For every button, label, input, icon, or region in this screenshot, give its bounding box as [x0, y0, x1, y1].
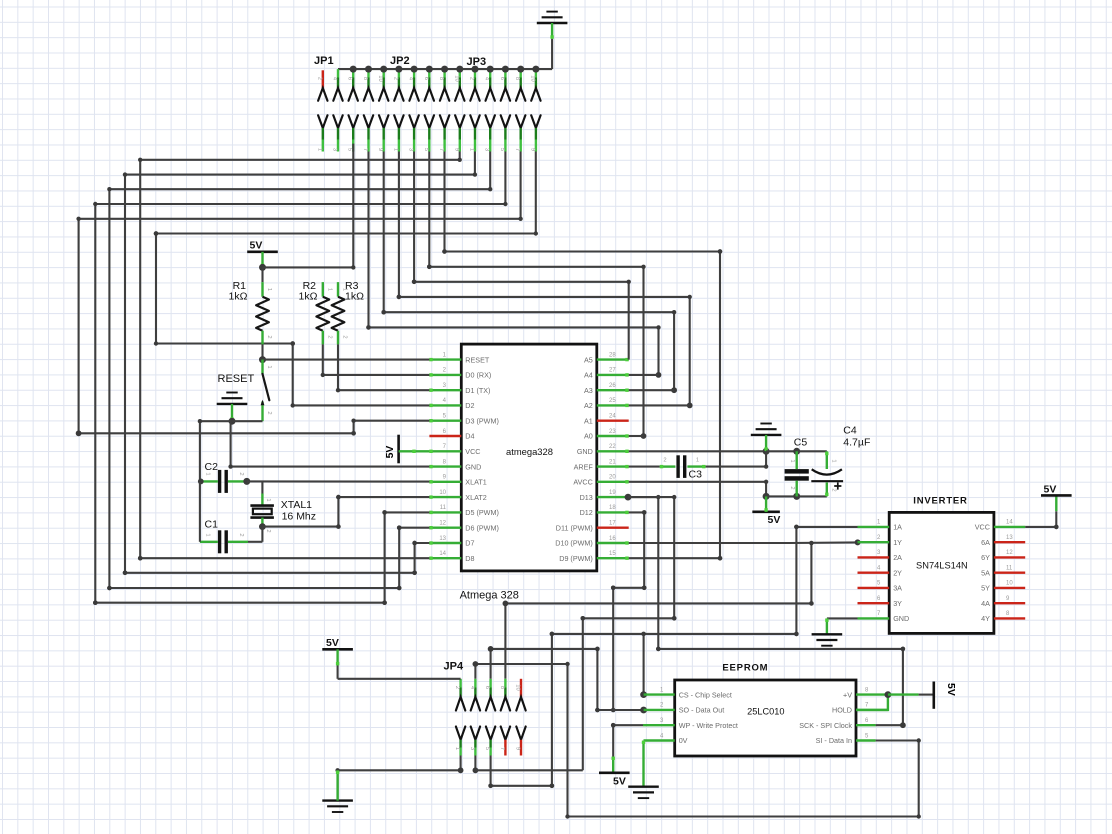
wire D10 to 1Y (inverter) [629, 542, 790, 544]
bend dot [442, 249, 447, 254]
svg-text:11: 11 [1006, 566, 1013, 572]
EEPROM pin 2 stub [644, 709, 675, 711]
svg-text:VCC: VCC [465, 447, 480, 456]
svg-text:25: 25 [609, 398, 616, 404]
bend dot [412, 541, 417, 546]
pin 6 D4 stub [429, 435, 461, 437]
wire ground run right segment [475, 769, 582, 771]
svg-text:A2: A2 [584, 401, 593, 410]
wire ground junction to C2 left [200, 421, 232, 481]
svg-text:1: 1 [316, 148, 322, 151]
wire XTAL junction to C1 pin2 [261, 527, 263, 542]
wire JP4-4 from SI run [475, 664, 918, 817]
bend dot [412, 280, 417, 285]
header pin JP1-5 (bottom row) [349, 115, 358, 128]
svg-text:3: 3 [469, 747, 475, 750]
svg-text:26: 26 [609, 383, 616, 389]
svg-text:15: 15 [609, 551, 616, 557]
wire GND row to C5 top [766, 450, 797, 452]
junction GND net [763, 448, 770, 455]
junction bus / pin 11 [487, 66, 494, 73]
pin 11 D5 (PWM) stub [429, 511, 461, 513]
junction A0 [641, 433, 647, 439]
wire JP1-7 to A4 [369, 152, 659, 375]
power 5V (R1) [247, 251, 278, 254]
svg-text:Atmega 328: Atmega 328 [460, 590, 519, 602]
wire C3 pin1 [687, 465, 705, 467]
svg-text:RESET: RESET [218, 373, 255, 385]
bend dot [488, 784, 493, 789]
capacitor C1 [218, 530, 221, 553]
svg-text:8: 8 [362, 77, 368, 80]
junction bus / pin 9 [456, 66, 463, 73]
junction bus / pin 8 [441, 66, 448, 73]
svg-text:6: 6 [484, 686, 490, 689]
svg-text:12: 12 [1006, 550, 1013, 556]
svg-text:2Y: 2Y [893, 568, 902, 577]
svg-text:1: 1 [469, 148, 475, 151]
header pin JP3-10 (top row) [535, 69, 537, 77]
header pin JP3-1 (bottom row) [470, 115, 479, 128]
header pin JP2-5 (bottom row) [425, 115, 434, 128]
svg-text:17: 17 [609, 521, 616, 527]
svg-text:A4: A4 [584, 371, 593, 380]
svg-text:D11 (PWM): D11 (PWM) [556, 523, 593, 532]
bend dot [107, 586, 112, 591]
wire JP2-7 to D9 [445, 152, 721, 559]
inverter pin 7 stub [858, 617, 890, 619]
svg-text:C1: C1 [205, 519, 219, 531]
wire JP3-9 to D2 [156, 152, 536, 406]
bend dot [809, 601, 814, 606]
wire 5V row C5 [766, 495, 797, 497]
svg-text:A3: A3 [584, 386, 593, 395]
bend dot [397, 525, 402, 530]
svg-text:27: 27 [609, 368, 616, 374]
EEPROM pin 1 stub [644, 693, 675, 695]
wire C4 pin2 [826, 482, 828, 496]
bend dot [641, 632, 646, 637]
svg-text:VCC: VCC [975, 523, 990, 532]
header pin JP4-5 (bottom row) [486, 727, 495, 740]
switch S1 top pin [261, 360, 263, 374]
op-amp.. IC U1 atmega328 body [461, 344, 597, 571]
svg-text:1: 1 [696, 458, 699, 464]
svg-text:2: 2 [326, 335, 332, 338]
ground (RESET) [217, 403, 248, 405]
wire C5 pin1 [796, 451, 798, 469]
wire AREF to C3 [629, 466, 660, 468]
svg-text:5V: 5V [326, 637, 339, 649]
junction 5V/R1 [259, 264, 266, 271]
pin stub RESET ground [231, 404, 233, 421]
svg-text:5: 5 [499, 148, 505, 151]
svg-text:13: 13 [1006, 535, 1013, 541]
svg-text:CS - Chip Select: CS - Chip Select [679, 690, 732, 699]
svg-text:1: 1 [789, 459, 795, 462]
svg-text:1kΩ: 1kΩ [229, 291, 248, 303]
header pin JP1-3 (bottom row) [333, 115, 342, 128]
svg-text:6A: 6A [981, 538, 990, 547]
header pin JP1-1 (bottom row) [318, 115, 327, 128]
pin 12 D6 (PWM) stub [429, 527, 461, 529]
IC U3 EEPROM body [675, 680, 856, 756]
bend dot [718, 249, 723, 254]
bend dot [366, 325, 371, 330]
svg-text:8: 8 [438, 77, 444, 80]
svg-text:3A: 3A [893, 584, 902, 593]
svg-text:5: 5 [423, 148, 429, 151]
svg-text:D9 (PWM): D9 (PWM) [559, 554, 593, 563]
bend dot [382, 510, 387, 515]
header pin JP1-4 (top row) [337, 69, 339, 77]
power 5V (EEPROM, vertical) [932, 682, 935, 709]
svg-text:3: 3 [332, 148, 338, 151]
svg-text:2: 2 [469, 77, 475, 80]
svg-text:18: 18 [609, 505, 616, 511]
bend dot [550, 632, 555, 637]
bend dot [351, 431, 356, 436]
bend dot [397, 295, 402, 300]
svg-text:1: 1 [266, 365, 272, 368]
svg-text:9: 9 [529, 148, 535, 151]
header pin JP4-9 (bottom row) [516, 727, 525, 740]
wire JP4-5 to 1A/CS [491, 527, 858, 786]
svg-text:2: 2 [454, 686, 460, 689]
pin 9 XLAT1 stub [429, 481, 461, 483]
resistor R2 [322, 282, 324, 297]
junction bus / pin 2 [350, 66, 357, 73]
svg-text:2: 2 [266, 335, 272, 338]
svg-text:AVCC: AVCC [573, 478, 592, 487]
svg-text:JP4: JP4 [444, 661, 464, 673]
pin 19 D13 stub [597, 496, 629, 498]
junction 1Y [855, 539, 861, 545]
wire JP2-5 to A0 [429, 152, 643, 437]
bend dot [93, 600, 98, 605]
svg-text:HOLD: HOLD [832, 706, 852, 715]
pin 4 D2 stub [429, 404, 461, 406]
svg-text:12: 12 [439, 521, 446, 527]
header pin JP1-7 (bottom row) [364, 115, 373, 128]
svg-text:D3 (PWM): D3 (PWM) [465, 416, 499, 425]
wire IC GND to C5 area [629, 450, 766, 452]
svg-text:6Y: 6Y [981, 553, 990, 562]
svg-text:25LC010: 25LC010 [747, 707, 784, 717]
wire RESET junction to IC pin1 [263, 359, 430, 361]
svg-text:5V: 5V [1044, 484, 1057, 496]
header pin JP2-3 (bottom row) [409, 115, 418, 128]
ground (JP4) [322, 799, 353, 801]
svg-text:11: 11 [440, 505, 447, 511]
wire C1 left up to C2 [199, 481, 201, 541]
svg-text:4Y: 4Y [981, 614, 990, 623]
wire D12 to SO (EEPROM) [613, 512, 644, 710]
svg-text:SI - Data In: SI - Data In [816, 736, 852, 745]
junction A4 [656, 372, 662, 378]
svg-text:13: 13 [439, 536, 446, 542]
pin 24 A1 stub [597, 420, 629, 422]
svg-text:SN74LS14N: SN74LS14N [916, 561, 968, 571]
svg-text:10: 10 [439, 490, 446, 496]
wire junction to R1 top [261, 267, 263, 282]
svg-text:5: 5 [484, 747, 490, 750]
junction bus / pin 4 [380, 66, 387, 73]
svg-text:A5: A5 [584, 355, 593, 364]
svg-text:INVERTER: INVERTER [913, 496, 967, 507]
svg-text:9: 9 [377, 148, 383, 151]
svg-text:7: 7 [499, 747, 505, 750]
bend dot [809, 541, 814, 546]
svg-text:5V: 5V [613, 776, 626, 788]
pin 7 VCC stub [429, 450, 461, 452]
bend dot [458, 767, 464, 773]
pin 26 A3 stub [597, 389, 629, 391]
power 5V (JP4) [322, 648, 353, 651]
header pin JP2-2 (top row) [398, 69, 400, 77]
pin 8 GND stub [429, 465, 461, 467]
svg-text:14: 14 [439, 551, 446, 557]
svg-text:2: 2 [663, 458, 666, 464]
wire JP4-6 to SO run [491, 649, 644, 710]
junction SO [640, 707, 647, 714]
pin 20 AVCC stub [597, 481, 629, 483]
junction JP4-8 riser [503, 601, 509, 607]
svg-text:19: 19 [609, 490, 616, 496]
junction bus / pin 6 [411, 66, 418, 73]
inverter pin 11 stub [994, 572, 1025, 574]
header pin JP3-8 (top row) [520, 69, 522, 77]
svg-text:C4: C4 [843, 425, 857, 437]
svg-text:0V: 0V [679, 736, 688, 745]
bend dot [76, 430, 82, 436]
svg-text:4.7µF: 4.7µF [843, 437, 870, 449]
svg-text:2: 2 [789, 486, 795, 489]
wire C2 pin2 [228, 480, 247, 482]
bend dot [581, 616, 586, 621]
inverter pin 6 stub [858, 602, 890, 604]
wire ground junction to IC GND [231, 420, 232, 422]
svg-text:2: 2 [266, 411, 272, 414]
inverter pin 13 stub [994, 541, 1025, 543]
header pin JP2-1 (bottom row) [394, 115, 403, 128]
svg-text:5Y: 5Y [981, 584, 990, 593]
svg-text:8: 8 [499, 686, 505, 689]
inverter pin 2 stub [858, 541, 890, 543]
pin 28 A5 stub [597, 358, 629, 360]
wire D10 branch to JP4-8 [505, 543, 811, 679]
bend dot [412, 571, 417, 576]
bend dot [397, 586, 402, 591]
inverter pin 3 stub [858, 556, 890, 558]
svg-text:A0: A0 [584, 432, 593, 441]
junction JP4-4 [473, 661, 479, 667]
svg-text:20: 20 [609, 475, 616, 481]
svg-text:2: 2 [831, 488, 837, 491]
svg-text:1: 1 [205, 472, 211, 475]
svg-text:5V: 5V [945, 683, 957, 696]
inverter pin 12 stub [994, 556, 1025, 558]
svg-text:1: 1 [266, 288, 272, 291]
svg-text:10: 10 [515, 684, 521, 690]
pin stub top ground [551, 23, 553, 39]
svg-text:RESET: RESET [465, 355, 490, 364]
wire D13 to SCK (EEPROM) [628, 497, 903, 725]
junction bus / pin 12 [502, 66, 509, 73]
wire C3 pin2 [660, 465, 676, 467]
capacitor C4 (electrolytic) [812, 469, 842, 474]
header pin JP2-4 (top row) [413, 69, 415, 77]
svg-text:2: 2 [238, 472, 244, 475]
power 5V (WP) [599, 771, 630, 774]
svg-text:D5 (PWM): D5 (PWM) [465, 508, 499, 517]
header pin JP4-3 (bottom row) [471, 727, 480, 740]
wire 5V to R1 junction [261, 252, 263, 268]
IC U2 INVERTER body [889, 512, 994, 633]
wire C4 pin1 [826, 451, 828, 469]
wire +V/HOLD tie [856, 695, 888, 710]
header pin JP3-6 (top row) [504, 69, 506, 77]
bend dot [382, 600, 387, 605]
wire D13 stubjoin [627, 496, 630, 498]
svg-text:1Y: 1Y [893, 538, 902, 547]
svg-text:3: 3 [484, 148, 490, 151]
wire D13 to ground run [583, 497, 674, 770]
svg-text:WP - Write Protect: WP - Write Protect [679, 721, 738, 730]
svg-text:23: 23 [609, 429, 616, 435]
EEPROM pin 7 stub [856, 709, 888, 711]
bend dot [718, 556, 723, 561]
svg-text:21: 21 [609, 459, 616, 465]
pin 27 A4 stub [597, 374, 629, 376]
wire 0V to ground [642, 741, 644, 787]
EEPROM pin 8 stub [856, 693, 888, 695]
wire C3 to GND junction [706, 451, 767, 466]
svg-text:10: 10 [529, 75, 535, 81]
junction bus / pin 10 [472, 66, 479, 73]
bend dot [611, 708, 616, 713]
switch S1 bottom pin [261, 402, 263, 422]
header pin JP3-3 (bottom row) [486, 115, 495, 128]
wire JP2-9 to D8 [140, 152, 460, 559]
wire A3 stub to riser [629, 389, 674, 391]
svg-text:10: 10 [1006, 581, 1013, 587]
svg-text:GND: GND [577, 447, 593, 456]
svg-text:1kΩ: 1kΩ [345, 291, 364, 303]
svg-text:2: 2 [392, 77, 398, 80]
svg-text:6: 6 [347, 77, 353, 80]
power 5V (inverter) [1041, 494, 1072, 497]
svg-text:C5: C5 [794, 437, 808, 449]
pin 10 XLAT2 stub [429, 496, 461, 498]
pin 17 D11 (PWM) stub [597, 527, 629, 529]
bend dot [611, 586, 616, 591]
junction R1/RESET [259, 356, 266, 363]
inverter pin 10 stub [994, 587, 1025, 589]
wire switch to ground junction [232, 420, 263, 422]
junction A3 [671, 387, 677, 393]
wire top header bus [338, 68, 552, 70]
svg-text:5V: 5V [768, 514, 781, 526]
wire JP1-9 to A3 [384, 152, 674, 391]
svg-text:D0 (RX): D0 (RX) [465, 371, 491, 380]
header pin JP3-2 (top row) [474, 69, 476, 77]
svg-text:2: 2 [342, 335, 348, 338]
pin 21 AREF stub [597, 465, 629, 467]
svg-text:1kΩ: 1kΩ [299, 291, 318, 303]
svg-text:5A: 5A [981, 568, 990, 577]
svg-text:D6 (PWM): D6 (PWM) [465, 523, 499, 532]
svg-text:1: 1 [392, 148, 398, 151]
pin 18 D12 stub [597, 511, 629, 513]
pin stub JP4 ground [336, 770, 338, 800]
svg-text:7: 7 [514, 148, 520, 151]
header pin JP2-9 (bottom row) [455, 115, 464, 128]
wire JP4-3 to ground run [474, 756, 476, 771]
power 5V (decoupling) [752, 510, 780, 513]
bend dot [154, 231, 159, 236]
header pin JP1-6 (top row) [352, 69, 354, 77]
svg-text:10: 10 [377, 75, 383, 81]
header pin JP2-8 (top row) [443, 69, 445, 77]
bend dot [595, 708, 600, 713]
junction bus / pin 5 [395, 66, 402, 73]
svg-text:1: 1 [342, 288, 348, 291]
junction JP4-6 [488, 646, 494, 652]
header pin JP3-5 (bottom row) [501, 115, 510, 128]
wire inverter GND to ground [827, 617, 858, 619]
EEPROM pin 4 stub [644, 739, 675, 741]
ground (EEPROM 0V) [628, 786, 659, 788]
junction CS [640, 691, 647, 698]
svg-text:D12: D12 [580, 508, 593, 517]
bend dot [550, 784, 555, 789]
resistor R3 [337, 282, 339, 297]
wire junction down to XTAL1 top [261, 481, 263, 493]
pin 14 D8 stub [429, 557, 461, 559]
junction D13 [625, 494, 632, 501]
header pin JP3-9 (bottom row) [531, 115, 540, 128]
bend dot [901, 647, 906, 652]
svg-text:4A: 4A [981, 599, 990, 608]
bend dot [794, 632, 799, 637]
pin 13 D7 stub [429, 542, 461, 544]
header pin JP4-2 (top row) [459, 679, 461, 688]
header pin JP2-10 (top row) [459, 69, 461, 77]
svg-text:7: 7 [438, 148, 444, 151]
inverter pin 14 stub [994, 526, 1025, 528]
svg-text:atmega328: atmega328 [506, 446, 553, 457]
junction 5V net (C5 bottom row) [763, 493, 770, 500]
inverter pin 4 stub [858, 572, 890, 574]
header pin JP4-7 (bottom row) [501, 727, 510, 740]
header pin JP1-2 (top row) [322, 70, 324, 77]
EEPROM pin 5 stub [856, 739, 876, 741]
wire R2 bottom to D0 [323, 344, 430, 375]
svg-text:9: 9 [453, 148, 459, 151]
svg-text:3Y: 3Y [893, 599, 902, 608]
ground (inverter) [812, 633, 843, 635]
wire A0 stub to riser [629, 435, 644, 437]
junction bus / pin 13 [517, 66, 524, 73]
wire C2 pin1 [200, 480, 218, 482]
junction bus / pin 7 [426, 66, 433, 73]
header pin JP4-4 (top row) [474, 679, 476, 688]
inverter pin 1 stub [858, 526, 890, 528]
wire VCC to 5V [1025, 511, 1056, 527]
svg-text:D7: D7 [465, 539, 474, 548]
svg-text:7: 7 [362, 148, 368, 151]
